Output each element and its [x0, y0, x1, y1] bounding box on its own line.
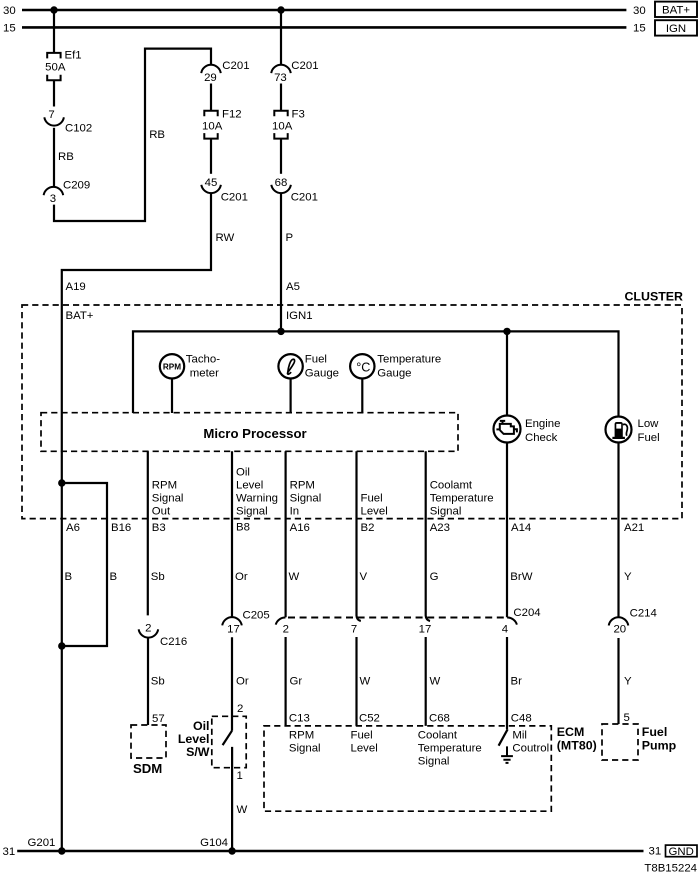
svg-text:68: 68 [275, 177, 288, 189]
svg-text:57: 57 [152, 713, 165, 725]
wire bus 15 (IGN) [22, 26, 626, 29]
svg-text:15: 15 [3, 22, 16, 34]
svg-text:G104: G104 [200, 837, 228, 849]
wire Sb from C216 to SDM pin 57 [147, 638, 149, 725]
svg-text:RPM: RPM [163, 362, 181, 371]
svg-text:Fuel: Fuel [361, 492, 383, 504]
svg-text:RPM: RPM [290, 480, 315, 492]
svg-text:CLUSTER: CLUSTER [624, 290, 683, 304]
svg-text:C48: C48 [511, 713, 532, 725]
svg-text:meter: meter [190, 368, 219, 380]
svg-text:Signal: Signal [290, 492, 322, 504]
connector C205/C204 dashed harness line [288, 617, 506, 619]
svg-text:Oil: Oil [193, 719, 210, 733]
svg-text:C216: C216 [160, 636, 187, 648]
wire bus 30 (BAT+) [22, 9, 626, 12]
svg-text:A6: A6 [66, 522, 80, 534]
fuse Ef1 50A [47, 53, 60, 80]
svg-text:Low: Low [638, 418, 660, 430]
svg-text:50A: 50A [45, 62, 66, 74]
ECM dashed box [264, 726, 551, 811]
fuel pump dashed box [602, 724, 638, 760]
svg-text:RB: RB [58, 151, 74, 163]
svg-text:(MT80): (MT80) [557, 738, 597, 752]
svg-text:Warning: Warning [236, 492, 278, 504]
icon fuel gauge script l [288, 359, 295, 374]
wire P: C201 pin68 down into cluster pin A5 to IGN1 node [280, 193, 282, 331]
wire RW: C201 pin45 down, jog left, down into cluster pin A19, through junctions to ground bus [62, 193, 211, 851]
connector C201 pin 73 arc [271, 65, 291, 73]
svg-text:15: 15 [633, 22, 646, 34]
wire from bus30 right tap down to C201 pin73 [280, 10, 282, 65]
svg-text:P: P [286, 232, 294, 244]
svg-text:V: V [360, 571, 368, 583]
svg-text:RPM: RPM [289, 730, 314, 742]
svg-text:IGN: IGN [666, 23, 686, 35]
svg-text:W: W [430, 676, 441, 688]
svg-text:ECM: ECM [557, 725, 585, 739]
wire B3 RPM signal out from micro processor [147, 451, 149, 615]
svg-text:A5: A5 [286, 281, 300, 293]
svg-text:A21: A21 [624, 522, 644, 534]
svg-text:4: 4 [502, 623, 508, 635]
svg-text:Gauge: Gauge [305, 368, 339, 380]
svg-text:73: 73 [274, 72, 287, 84]
svg-text:B3: B3 [152, 522, 166, 534]
gauge circle fuel gauge [278, 354, 302, 378]
svg-text:Temperature: Temperature [418, 743, 482, 755]
wire fuel gauge to micro processor [290, 379, 292, 414]
terminal box BAT+ [655, 2, 697, 17]
svg-text:B: B [65, 571, 73, 583]
node junction dot IGN1 at A5 [277, 328, 284, 335]
svg-text:29: 29 [204, 72, 217, 84]
svg-text:2: 2 [145, 623, 151, 635]
svg-text:30: 30 [3, 5, 16, 17]
node junction dot B merge [58, 642, 65, 649]
wire Gr from C205 pin2 to ECM C13 [285, 637, 287, 726]
svg-text:Out: Out [152, 506, 171, 518]
svg-text:A19: A19 [66, 281, 86, 293]
svg-text:Sb: Sb [151, 571, 165, 583]
svg-text:C201: C201 [291, 60, 318, 72]
svg-text:Pump: Pump [642, 738, 677, 752]
node junction dot G104 [228, 847, 235, 854]
node junction dot at A19/A6 branch [58, 479, 65, 486]
wire fuse F3 to C201 pin68 [280, 139, 282, 174]
connector C201 pin 45 arc [201, 185, 221, 193]
wire Y from C214 pin20 to fuel pump pin 5 [617, 638, 619, 724]
svg-text:Level: Level [351, 743, 378, 755]
wire Or from C205 pin17 into oil level switch [231, 637, 233, 731]
gauge circle tachometer [160, 354, 184, 378]
svg-text:Ef1: Ef1 [65, 50, 82, 62]
wire from bus30 to fuse Ef1 [53, 10, 55, 53]
svg-text:RPM: RPM [152, 480, 177, 492]
wire Br from C204 pin4 into ECM mil control switch [506, 637, 508, 729]
wire BAT+ branch node A6/B16 inside cluster [62, 483, 107, 646]
svg-text:Tacho-: Tacho- [186, 354, 220, 366]
connector C205 pin 17 arc [222, 617, 242, 625]
icon low fuel pump symbol [612, 422, 627, 438]
svg-text:BAT+: BAT+ [66, 310, 94, 322]
wire W from C205 pin7 to ECM C52 [355, 637, 357, 726]
svg-text:C209: C209 [63, 179, 90, 191]
svg-text:C205: C205 [243, 610, 270, 622]
wire IGN1 internal bus with corners down to micro processor and low fuel lamp [133, 331, 619, 416]
svg-text:C204: C204 [513, 607, 540, 619]
svg-text:C201: C201 [222, 60, 249, 72]
svg-text:Temperature: Temperature [430, 492, 494, 504]
svg-text:Micro Processor: Micro Processor [203, 426, 306, 441]
svg-text:S/W: S/W [186, 745, 210, 759]
wire IGN1 bus to engine check lamp [506, 331, 508, 415]
switch blade oil level S/W [223, 731, 232, 745]
svg-text:Fuel: Fuel [642, 725, 667, 739]
svg-text:A23: A23 [430, 522, 450, 534]
node junction dot IGN1 at engine check [503, 328, 510, 335]
node junction dot bus30 right [277, 6, 284, 13]
svg-text:C201: C201 [291, 191, 318, 203]
svg-text:Oil: Oil [236, 467, 250, 479]
svg-text:C52: C52 [359, 713, 380, 725]
svg-text:30: 30 [633, 5, 646, 17]
svg-text:BrW: BrW [510, 571, 532, 583]
wire temperature gauge to micro processor [361, 379, 363, 414]
node junction dot bus30 left [50, 6, 57, 13]
svg-text:Gr: Gr [290, 676, 303, 688]
svg-text:RB: RB [149, 129, 165, 141]
indicator circle engine check [494, 416, 521, 443]
gauge circle temperature gauge [350, 354, 374, 378]
connector C214 pin 20 arc [609, 617, 629, 625]
svg-text:Or: Or [235, 571, 248, 583]
ground symbol in ECM [501, 746, 513, 763]
terminal box GND [666, 845, 698, 857]
svg-text:Level: Level [236, 480, 263, 492]
svg-text:B2: B2 [361, 522, 375, 534]
svg-text:Level: Level [178, 732, 210, 746]
svg-text:Fuel: Fuel [305, 354, 327, 366]
connector C216 pin 2 arc [139, 629, 159, 637]
indicator circle low fuel [606, 417, 632, 443]
svg-text:B: B [110, 571, 118, 583]
svg-text:2: 2 [283, 623, 289, 635]
wire bus 31 ground [17, 850, 643, 852]
svg-text:Level: Level [361, 506, 388, 518]
switch blade mil control [499, 729, 508, 745]
wire W from oil level switch pin1 to ground bus [231, 747, 233, 851]
svg-text:Coolant: Coolant [418, 730, 458, 742]
connector C201 pin 29 arc [201, 65, 221, 73]
svg-text:Y: Y [624, 571, 632, 583]
svg-text:Signal: Signal [152, 492, 184, 504]
fuse F3 10A [274, 111, 287, 139]
wire C201 pin73 to fuse F3 [280, 84, 282, 111]
wire W from C205 pin17 to ECM C68 [425, 637, 427, 726]
wire fuse Ef1 to connector C102 [53, 80, 55, 106]
svg-text:3: 3 [50, 193, 56, 205]
connector C102 pin 7 arc [44, 117, 64, 125]
fuse F12 10A [204, 111, 217, 139]
cluster dashed box [22, 305, 682, 519]
svg-text:°C: °C [356, 361, 370, 375]
wire B2 fuel level from micro processor [357, 451, 361, 621]
svg-text:20: 20 [613, 624, 626, 636]
svg-text:Sb: Sb [151, 676, 165, 688]
svg-text:31: 31 [649, 846, 662, 858]
svg-text:Signal: Signal [418, 756, 450, 768]
svg-text:B8: B8 [236, 522, 250, 534]
svg-text:Gauge: Gauge [377, 368, 411, 380]
wire C201 pin29 to fuse F12 [210, 84, 212, 111]
svg-text:GND: GND [669, 846, 694, 858]
svg-text:IGN1: IGN1 [286, 310, 313, 322]
wire from C209 pin3 down, right, up the RB riser, right to C201 pin29 [54, 49, 211, 221]
micro processor U1 dashed box [41, 413, 458, 452]
svg-text:SDM: SDM [133, 761, 162, 776]
svg-text:Engine: Engine [525, 418, 560, 430]
icon engine check symbol [496, 421, 517, 434]
svg-text:In: In [290, 506, 300, 518]
svg-text:17: 17 [227, 623, 240, 635]
node junction dot G201 [58, 847, 65, 854]
svg-text:Check: Check [525, 432, 558, 444]
svg-text:G201: G201 [28, 837, 56, 849]
svg-text:Fuel: Fuel [638, 432, 660, 444]
wire low fuel lamp to cluster pin A21 [617, 443, 619, 618]
wire engine check lamp to cluster pin A14 [506, 443, 508, 618]
terminal box IGN [655, 20, 697, 35]
svg-text:F12: F12 [222, 109, 242, 121]
svg-text:Temperature: Temperature [377, 354, 441, 366]
connector C204 pin 4 arc [507, 617, 517, 624]
svg-text:10A: 10A [202, 120, 223, 132]
svg-text:C214: C214 [630, 607, 657, 619]
svg-text:45: 45 [205, 177, 218, 189]
SDM dashed box [131, 725, 166, 758]
wire B8 oil level warning signal from micro processor [231, 451, 233, 617]
svg-text:31: 31 [3, 846, 16, 858]
svg-text:W: W [237, 804, 248, 816]
svg-text:B16: B16 [111, 522, 131, 534]
svg-text:T8B15224: T8B15224 [644, 863, 697, 875]
svg-text:5: 5 [624, 712, 630, 724]
svg-text:17: 17 [419, 623, 432, 635]
svg-text:A16: A16 [290, 522, 310, 534]
svg-text:Coolamt: Coolamt [430, 480, 473, 492]
svg-text:Br: Br [511, 676, 523, 688]
svg-text:C13: C13 [289, 713, 310, 725]
svg-text:BAT+: BAT+ [662, 4, 690, 16]
svg-text:F3: F3 [292, 109, 305, 121]
svg-text:C68: C68 [429, 713, 450, 725]
svg-text:RW: RW [216, 232, 235, 244]
svg-text:Mil: Mil [512, 730, 527, 742]
svg-text:7: 7 [48, 109, 54, 121]
svg-text:W: W [289, 571, 300, 583]
svg-text:Or: Or [236, 676, 249, 688]
svg-text:Coutrol: Coutrol [512, 743, 549, 755]
svg-text:G: G [430, 571, 439, 583]
svg-text:Signal: Signal [236, 506, 268, 518]
connector C209 pin 3 arc [44, 187, 64, 195]
svg-text:W: W [360, 676, 371, 688]
svg-text:A14: A14 [511, 522, 531, 534]
svg-text:Signal: Signal [289, 743, 321, 755]
svg-text:Y: Y [624, 676, 632, 688]
svg-text:1: 1 [237, 770, 243, 782]
wire A16 RPM signal in from micro processor [285, 451, 287, 617]
wire tachometer to micro processor [171, 379, 173, 414]
oil level S/W dashed box [212, 716, 246, 767]
wire fuse F12 to C201 pin45 [210, 139, 212, 174]
svg-text:Signal: Signal [430, 506, 462, 518]
connector C201 pin 68 arc [271, 185, 291, 193]
wire A23 coolant temperature signal from micro processor [426, 451, 430, 621]
connector C205 pin 2 arc [276, 617, 286, 624]
svg-text:Fuel: Fuel [351, 730, 373, 742]
wire RB: C102 to C209 [53, 128, 55, 187]
svg-text:7: 7 [351, 623, 357, 635]
svg-text:C201: C201 [221, 191, 248, 203]
svg-text:C102: C102 [65, 122, 92, 134]
svg-text:2: 2 [237, 703, 243, 715]
svg-text:10A: 10A [272, 120, 293, 132]
